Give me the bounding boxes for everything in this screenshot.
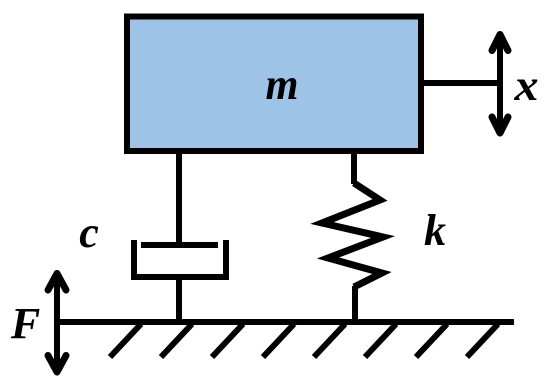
svg-text:k: k — [424, 206, 446, 255]
wire: damper bottom rod — [176, 277, 182, 322]
wire: mass to x arrow — [421, 80, 500, 86]
damper piston plate — [141, 242, 218, 248]
mass m block — [127, 17, 421, 152]
spring k zigzag — [322, 183, 383, 287]
svg-text:m: m — [266, 60, 299, 109]
svg-text:F: F — [10, 299, 40, 348]
wire: spring bottom rod — [352, 286, 358, 322]
F arrow (double-headed vertical) — [48, 273, 66, 372]
damper cup C — [134, 240, 226, 277]
wire: spring top rod — [351, 151, 357, 184]
x arrow (double-headed vertical) — [492, 35, 508, 134]
ground line — [54, 319, 514, 325]
wire: damper top rod — [176, 151, 182, 247]
ground hatch marks — [110, 324, 498, 357]
svg-text:c: c — [79, 208, 99, 257]
svg-text:x: x — [513, 61, 538, 110]
